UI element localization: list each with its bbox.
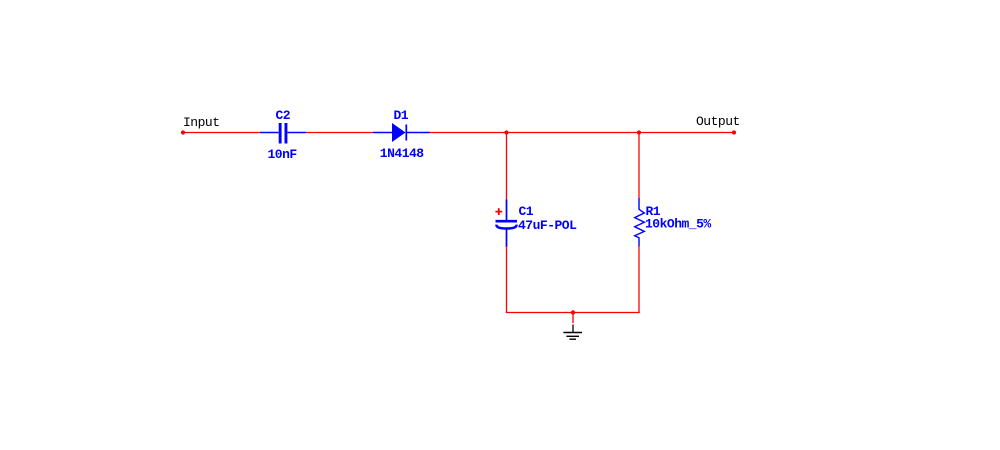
wire ground stub xyxy=(572,313,574,324)
svg-text:D1: D1 xyxy=(394,108,409,123)
svg-text:Input: Input xyxy=(183,115,220,130)
svg-text:C2: C2 xyxy=(276,108,291,123)
ground xyxy=(563,325,582,340)
junction at C1 branch xyxy=(504,130,508,134)
wire bottom rail xyxy=(506,312,640,314)
node Output terminal dot xyxy=(732,130,736,134)
capacitor C1 xyxy=(496,200,518,248)
junction at R1 branch xyxy=(637,130,641,134)
wire top node down to C1 xyxy=(506,133,508,201)
capacitor C2 xyxy=(260,123,306,144)
svg-text:Output: Output xyxy=(696,114,740,129)
svg-text:1N4148: 1N4148 xyxy=(380,146,425,161)
wire top node down to R1 xyxy=(638,133,640,199)
capacitor C1 polarity plus xyxy=(495,208,502,215)
svg-text:C1: C1 xyxy=(519,204,534,219)
wire C1 to bottom rail xyxy=(506,247,508,314)
wire Input to C2 xyxy=(183,132,260,134)
node Input terminal dot xyxy=(181,130,185,134)
diode D1 xyxy=(373,123,430,142)
wire C2 to D1 xyxy=(306,132,373,134)
svg-text:10kOhm_5%: 10kOhm_5% xyxy=(645,216,711,231)
svg-text:10nF: 10nF xyxy=(268,147,298,162)
wire D1 to Output xyxy=(430,132,734,134)
junction ground xyxy=(571,310,575,314)
resistor R1 xyxy=(635,198,645,247)
svg-text:47uF-POL: 47uF-POL xyxy=(518,218,577,233)
wire R1 to bottom rail xyxy=(638,246,640,313)
